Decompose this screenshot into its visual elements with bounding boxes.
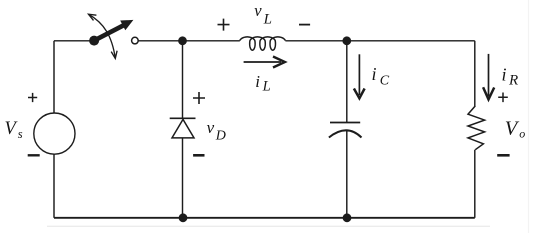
svg-text:C: C xyxy=(380,73,390,88)
svg-text:i: i xyxy=(372,64,377,84)
svg-text:i: i xyxy=(255,72,260,91)
svg-text:L: L xyxy=(263,12,272,28)
svg-text:v: v xyxy=(254,1,262,20)
svg-text:i: i xyxy=(502,65,507,85)
svg-text:s: s xyxy=(18,127,23,141)
svg-text:o: o xyxy=(519,127,525,141)
svg-text:v: v xyxy=(207,118,215,137)
svg-text:D: D xyxy=(215,129,226,144)
svg-text:L: L xyxy=(262,79,271,95)
svg-text:R: R xyxy=(508,73,518,89)
